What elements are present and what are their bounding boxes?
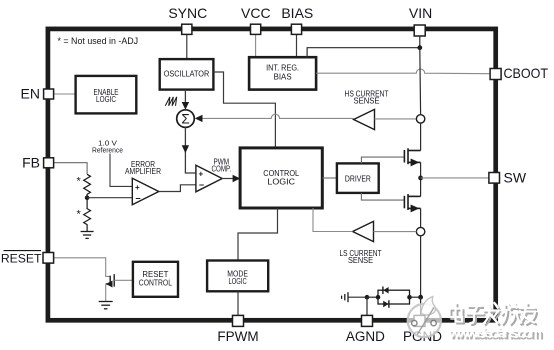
amp HS current sense [354, 109, 375, 129]
pin AGND [362, 315, 373, 326]
svg-text:SENSE: SENSE [348, 255, 373, 265]
wire mode logic to FPWM pin [237, 291, 239, 315]
pin RESET with overline [43, 253, 54, 264]
svg-text:COMP.: COMP. [212, 163, 232, 173]
pin VIN [414, 25, 425, 36]
ground below reset FET [99, 302, 113, 309]
svg-text:+: + [135, 183, 140, 192]
svg-text:CONTROL: CONTROL [139, 277, 172, 287]
wire BIAS drop to int reg bias [296, 34, 298, 57]
amp LS current sense [353, 221, 374, 241]
wire diode network to PGND rail [410, 296, 421, 298]
wire rotated ground to AGND node [348, 296, 367, 298]
transistor reset open-drain FET [106, 274, 115, 286]
pin SYNC [182, 24, 192, 34]
wire oscillator to summing node with arrow [184, 90, 186, 103]
svg-text:BIAS: BIAS [274, 72, 292, 82]
svg-text:RESET: RESET [1, 251, 42, 265]
mode logic block [207, 261, 268, 292]
wire AGND node to diode pair [367, 296, 378, 298]
wire PWM comp output to control logic with arrow [222, 178, 234, 180]
wire FB pin to divider [53, 163, 87, 175]
pin FB [44, 158, 54, 168]
wire LS sense input from tap [374, 231, 417, 233]
watermark logo small circles [412, 320, 417, 325]
enable logic block U-EN [76, 76, 137, 114]
wire SW node to SW pin [421, 177, 489, 179]
wire driver to LS gate [361, 193, 404, 200]
junction dots diode network [376, 295, 381, 300]
tap circle HS sense on VIN rail [416, 115, 424, 123]
svg-text:OSCILLATOR: OSCILLATOR [164, 68, 210, 78]
wire VCC drop to int reg bias [255, 34, 257, 57]
rotated ground near AGND [342, 292, 348, 302]
transistor LS FET [404, 194, 420, 210]
svg-text:*: * [77, 209, 82, 221]
svg-text:Σ: Σ [181, 112, 189, 127]
wire reset FET gate to reset control [114, 279, 133, 281]
summing node sigma [177, 110, 195, 128]
diode pair clamp network [378, 290, 410, 304]
IC boundary box [48, 29, 496, 320]
diode D-top pointing left [383, 287, 388, 294]
watermark logo slash [417, 307, 434, 334]
svg-text:LOGIC: LOGIC [267, 177, 295, 187]
int reg bias block [249, 57, 316, 89]
wire SYNC drop to oscillator [186, 34, 188, 59]
wire PGND rail to PGND pin [420, 297, 422, 315]
svg-text:DRIVER: DRIVER [345, 174, 371, 184]
pin SW [489, 173, 500, 184]
svg-text:*: * [77, 176, 82, 188]
wire HS current sense to summing node with hop, arrow into sigma [202, 114, 354, 118]
svg-text:* = Not used in -ADJ: * = Not used in -ADJ [58, 36, 139, 46]
svg-text:SW: SW [504, 169, 527, 185]
svg-text:VCC: VCC [241, 5, 271, 21]
wire LS source to LS tap [420, 208, 422, 227]
wire int reg bias to CBOOT with hop over VIN line [316, 69, 489, 74]
svg-text:LOGIC: LOGIC [229, 276, 247, 286]
control logic block [240, 148, 322, 208]
watermark logo flame [421, 297, 435, 315]
comparator PWM comp [196, 165, 222, 192]
wire error amp output to PWM comp minus input (jog) [159, 185, 196, 192]
wire EN pin to enable logic [53, 93, 76, 95]
svg-text:SENSE: SENSE [354, 95, 380, 105]
oscillator block [160, 59, 214, 90]
driver block [337, 163, 379, 193]
ground below FB divider [81, 232, 94, 239]
sawtooth waveform symbol [165, 97, 176, 106]
junction dot SW node [418, 176, 423, 181]
junction dot PGND rail [418, 295, 423, 300]
wire LS sense output to control logic bottom [313, 208, 353, 232]
svg-text:FB: FB [22, 154, 40, 170]
wire HS sense input from tap [375, 118, 417, 120]
svg-text:−: − [199, 180, 204, 190]
pin FPWM [233, 315, 244, 326]
svg-text:VIN: VIN [409, 5, 432, 21]
op-amp error amplifier [132, 178, 159, 205]
junction dot AGND node [365, 295, 370, 300]
wire reference to error amplifier plus input [110, 154, 132, 187]
tap circle LS sense [416, 227, 424, 235]
svg-text:CBOOT: CBOOT [504, 65, 549, 81]
resistor R-top (FB divider) [84, 174, 91, 197]
svg-text:EN: EN [21, 86, 40, 102]
svg-text:FPWM: FPWM [217, 329, 258, 344]
svg-text:SYNC: SYNC [168, 5, 207, 21]
svg-text:AGND: AGND [346, 329, 385, 344]
pin VCC [251, 24, 261, 34]
wire RESET pin to FET drain [53, 258, 110, 277]
wire divider node to error amp minus input [87, 197, 132, 199]
reset control block [133, 262, 178, 297]
transistor HS FET [404, 148, 420, 164]
svg-text:Reference: Reference [92, 145, 123, 154]
wire LS tap down to PGND node [420, 236, 422, 297]
wire AGND node to AGND pin [366, 297, 368, 315]
svg-text:+: + [199, 169, 204, 178]
pin PGND [414, 315, 425, 326]
pin BIAS [291, 24, 301, 34]
node FB divider junction [85, 195, 90, 200]
wire VIN rail junction-to-HS-tap [419, 48, 422, 115]
wire control logic to driver [322, 177, 337, 179]
pin CBOOT [490, 69, 501, 80]
wire reset FET source to ground [105, 284, 107, 302]
svg-text:LOGIC: LOGIC [96, 94, 116, 104]
wire oscillator output to control logic top [213, 72, 275, 148]
svg-text:−: − [135, 194, 140, 204]
wire summing node to PWM comparator plus input, mid arrow [185, 127, 195, 173]
wire HS tap to HS fet drain [420, 123, 422, 150]
pin EN [44, 89, 54, 99]
wire driver to HS gate [361, 157, 404, 163]
diode D-bottom pointing right [383, 301, 388, 308]
svg-text:BIAS: BIAS [281, 5, 313, 21]
svg-text:AMPLIFIER: AMPLIFIER [125, 166, 161, 176]
wire control logic bottom to mode logic (jog) [238, 208, 278, 261]
wire VIN drop with junction to int reg bias [419, 36, 421, 48]
watermark logo circle [408, 297, 441, 338]
resistor R-bottom (FB divider) [84, 198, 91, 232]
junction dot on VIN line [417, 45, 422, 50]
svg-text:www.elecfans.com: www.elecfans.com [448, 325, 542, 341]
wire HS source to SW junction to LS drain [420, 162, 422, 196]
